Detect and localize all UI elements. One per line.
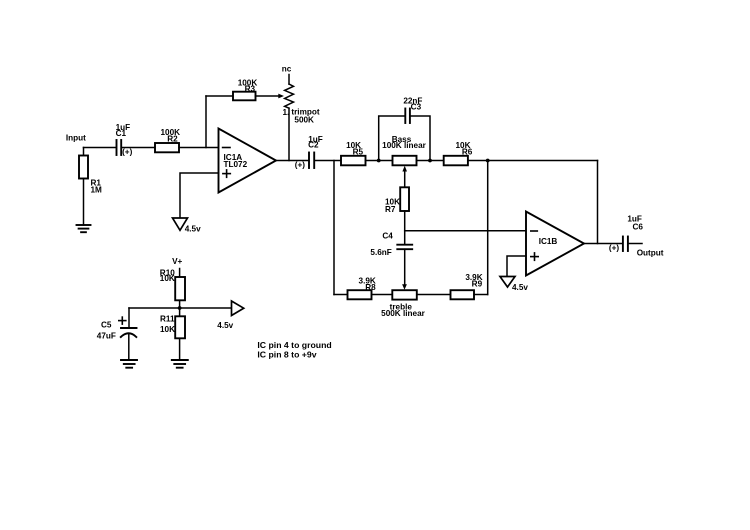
- power symbol 4.5v at IC1B: [500, 277, 515, 288]
- wire R8 to treble pot: [372, 294, 393, 296]
- wire C1 to R2: [122, 147, 155, 149]
- svg-text:C3: C3: [411, 103, 422, 112]
- wire input to C1: [84, 147, 116, 149]
- power symbol 4.5v at IC1A: [173, 218, 188, 230]
- wire R1 top: [83, 148, 85, 156]
- svg-text:V+: V+: [172, 257, 182, 266]
- svg-text:4.5v: 4.5v: [512, 283, 528, 292]
- svg-text:C5: C5: [101, 320, 112, 329]
- op-amp IC1B: [526, 212, 584, 276]
- potentiometer treble: [392, 290, 417, 299]
- wire C3 left vertical: [379, 116, 405, 161]
- node junction dot at C3 right: [428, 159, 432, 163]
- wire IC1B output to C6: [584, 243, 622, 245]
- svg-text:1M: 1M: [91, 185, 103, 194]
- svg-text:R9: R9: [472, 280, 483, 289]
- wire divider to 4.5v rail: [129, 307, 232, 309]
- svg-text:4.5v: 4.5v: [217, 321, 233, 330]
- wire feedback vertical right: [487, 161, 489, 295]
- wire R7 to C4: [404, 211, 406, 244]
- capacitor C4: [397, 245, 412, 250]
- trimpot 500K zigzag: [285, 84, 294, 108]
- capacitor C1: [117, 140, 122, 155]
- wire C2 to R5: [315, 160, 341, 162]
- capacitor C6: [623, 237, 628, 252]
- resistor R6: [444, 156, 468, 166]
- svg-text:4.5v: 4.5v: [185, 225, 201, 234]
- wire to IC1B inverting input: [405, 230, 526, 232]
- wire branch to R8: [334, 294, 348, 296]
- wire V+ to R10: [179, 269, 181, 278]
- wire bass pot to R6: [417, 160, 444, 162]
- svg-text:R11: R11: [160, 314, 175, 323]
- resistor R1: [79, 156, 88, 179]
- wire R11 to ground: [179, 338, 181, 360]
- node junction dot at R6 feedback: [486, 159, 490, 163]
- svg-text:C4: C4: [382, 231, 393, 240]
- op-amp IC1B minus symbol: [531, 230, 538, 232]
- wire IC1A noninverting input: [180, 173, 219, 218]
- resistor R10: [175, 277, 185, 300]
- resistor R11: [175, 316, 185, 338]
- svg-text:Input: Input: [66, 133, 86, 142]
- resistor R2: [155, 143, 179, 152]
- wire trimpot to IC1A output: [288, 108, 290, 160]
- svg-text:IC pin 8 to +9v: IC pin 8 to +9v: [257, 349, 316, 359]
- svg-text:R3: R3: [245, 84, 256, 93]
- wire nc to trimpot: [288, 75, 290, 85]
- wire bass wiper arrow: [404, 171, 406, 188]
- wire R1 to ground: [83, 179, 85, 226]
- svg-text:C1: C1: [116, 129, 127, 138]
- wire C5 to ground: [128, 334, 130, 360]
- resistor R5: [341, 156, 366, 166]
- wire R3 to trimpot wiper with arrow: [256, 95, 279, 97]
- ground under R1: [77, 225, 91, 232]
- wire divider to C5: [128, 308, 130, 328]
- svg-text:(+): (+): [609, 244, 620, 253]
- resistor R9: [451, 290, 475, 299]
- wire C3 right vertical: [411, 116, 430, 161]
- wire C6 to output: [629, 243, 642, 245]
- wire IC1A output to C2: [276, 160, 308, 162]
- node junction dot at C3 left: [377, 159, 381, 163]
- resistor R7: [400, 187, 409, 211]
- svg-text:10K: 10K: [160, 274, 175, 283]
- svg-text:5.6nF: 5.6nF: [370, 248, 391, 257]
- wire branch down to treble row: [333, 161, 335, 295]
- node junction dot divider: [178, 306, 182, 310]
- svg-text:47uF: 47uF: [97, 331, 116, 340]
- svg-text:TL072: TL072: [224, 160, 248, 169]
- wire R2 to IC1A inverting input: [179, 147, 219, 149]
- power symbol 4.5v rail arrow: [232, 301, 244, 316]
- svg-text:500K linear: 500K linear: [381, 309, 426, 318]
- wire R5 to bass pot: [366, 160, 393, 162]
- svg-text:100K linear: 100K linear: [382, 141, 427, 150]
- wire IC1B noninverting input: [507, 256, 526, 277]
- capacitor C5: [121, 328, 137, 337]
- wire R6 to feedback corner: [468, 160, 598, 162]
- svg-text:C2: C2: [308, 141, 319, 150]
- op-amp IC1A: [219, 129, 277, 193]
- svg-text:R7: R7: [385, 205, 396, 214]
- ground under R11: [172, 360, 188, 368]
- resistor R3: [233, 92, 256, 101]
- resistor R8: [348, 290, 372, 299]
- svg-text:10K: 10K: [160, 325, 175, 334]
- wire feedback down to IC1B output: [597, 161, 599, 244]
- svg-text:R8: R8: [365, 283, 376, 292]
- wire feedback vertical from inverting node: [205, 96, 207, 148]
- svg-text:R6: R6: [462, 147, 473, 156]
- svg-text:500K: 500K: [294, 116, 314, 125]
- svg-text:Output: Output: [637, 249, 664, 258]
- svg-text:C6: C6: [632, 223, 643, 232]
- wire R9 to feedback vertical: [474, 294, 488, 296]
- svg-text:R5: R5: [353, 148, 364, 157]
- wire feedback horizontal to R3: [206, 95, 233, 97]
- capacitor C3: [405, 109, 410, 124]
- capacitor C2: [309, 153, 314, 169]
- svg-text:IC1B: IC1B: [539, 237, 558, 246]
- capacitor C5 polarity plus symbol: [119, 317, 126, 324]
- wire treble pot to R9: [417, 294, 451, 296]
- op-amp IC1B plus symbol: [531, 253, 538, 260]
- svg-text:(+): (+): [122, 148, 133, 157]
- wire R10 to R11: [179, 300, 181, 316]
- svg-text:IC pin 4 to ground: IC pin 4 to ground: [257, 340, 331, 350]
- ground under C5: [121, 360, 137, 368]
- svg-text:(+): (+): [295, 160, 306, 169]
- svg-text:R2: R2: [167, 134, 178, 143]
- svg-text:nc: nc: [282, 64, 292, 73]
- op-amp IC1A minus symbol: [223, 147, 230, 149]
- wire C4 to treble wiper arrow: [404, 249, 406, 284]
- op-amp IC1A plus symbol: [223, 170, 230, 177]
- potentiometer Bass: [393, 156, 417, 166]
